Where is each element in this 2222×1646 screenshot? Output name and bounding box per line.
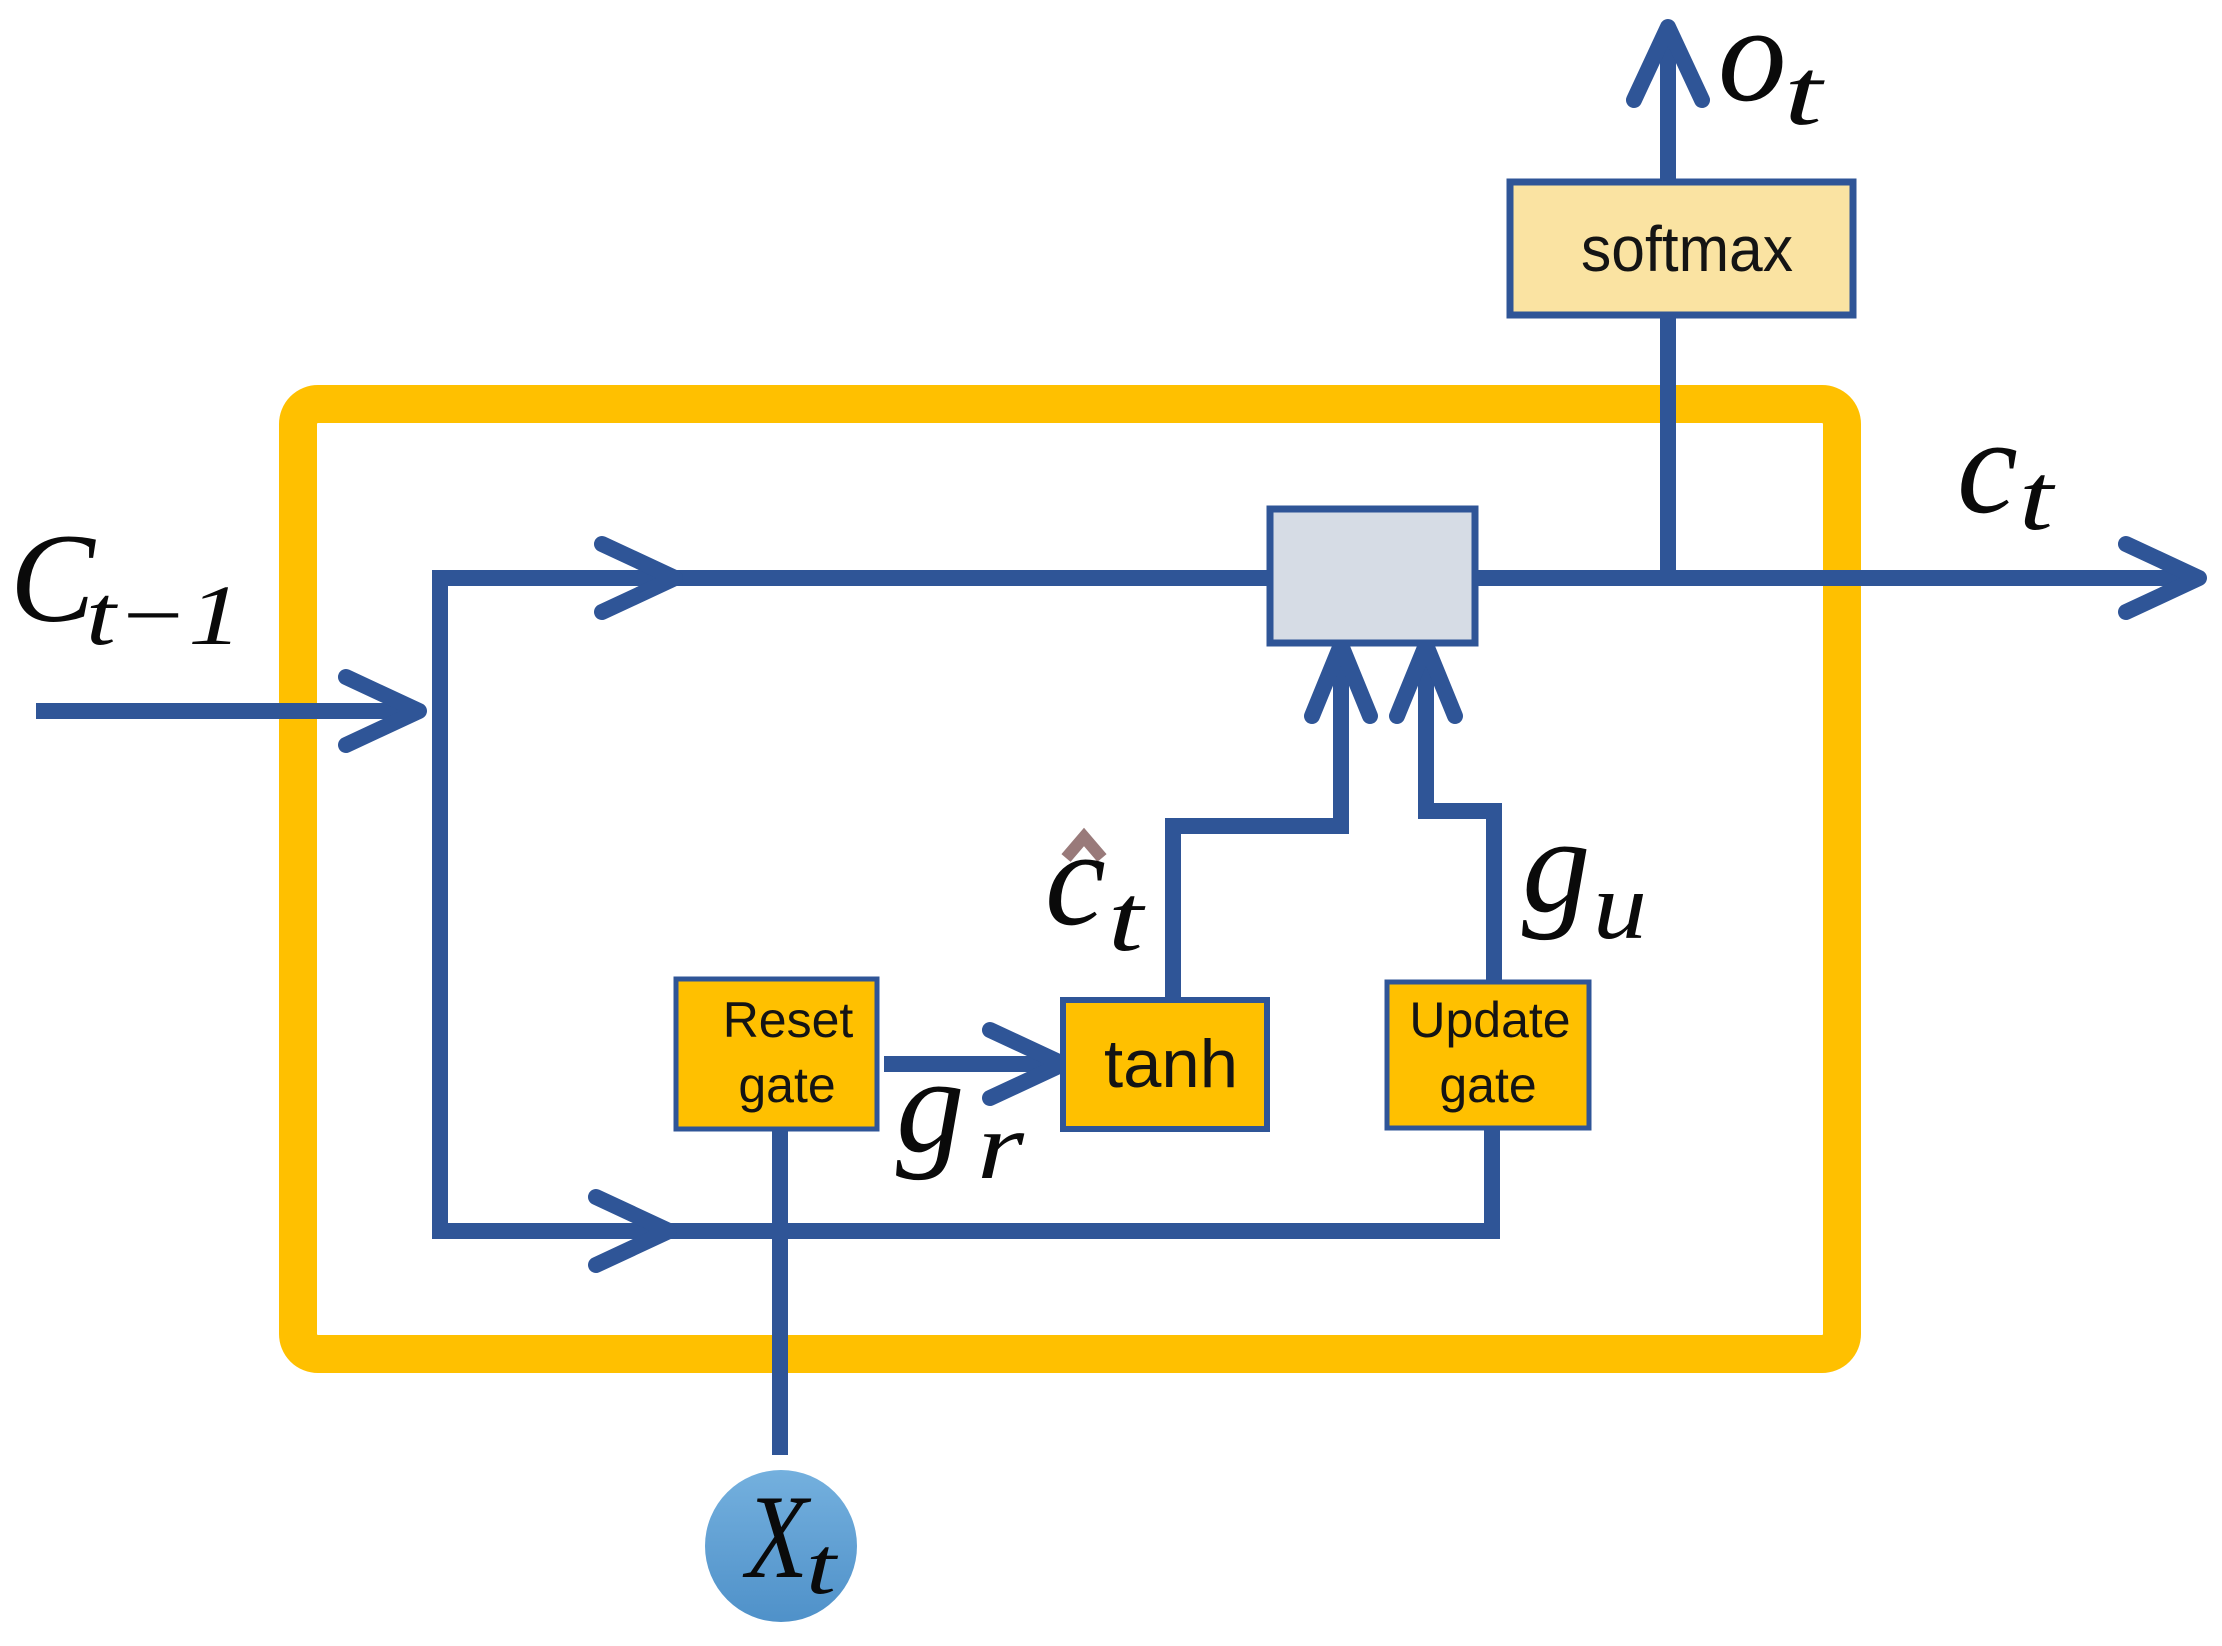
svg-text:g: g <box>896 1029 965 1181</box>
svg-text:t: t <box>2019 444 2056 550</box>
svg-text:gate: gate <box>1439 1057 1536 1113</box>
svg-text:r: r <box>977 1093 1025 1199</box>
box: Reset gate <box>676 979 877 1129</box>
box: Update gate <box>1387 982 1589 1128</box>
wire: combine box to softmax vertical <box>1660 316 1676 578</box>
wire: reset gate to tanh arrow (g_r) <box>884 1056 1058 1072</box>
node: combine box (gray) <box>1270 509 1475 643</box>
svg-text:t: t <box>806 1520 839 1611</box>
svg-text:c: c <box>1957 390 2018 542</box>
svg-text:Reset: Reset <box>723 992 854 1048</box>
svg-text:softmax: softmax <box>1581 213 1793 285</box>
svg-text:o: o <box>1718 0 1787 130</box>
wire: bottom bus arrowhead <box>596 1197 669 1265</box>
wire: left vertical bus + bottom input bus + update-gate riser <box>440 578 1492 1231</box>
svg-text:t: t <box>1108 865 1146 971</box>
svg-text:c: c <box>1045 802 1106 954</box>
svg-text:C: C <box>10 509 96 649</box>
wire: softmax to o_t output arrow <box>1660 32 1676 185</box>
svg-text:g: g <box>1522 789 1591 941</box>
label c-hat_t <box>1066 837 1102 858</box>
svg-text:X: X <box>743 1470 812 1603</box>
wire: top cell-state line <box>432 570 2196 586</box>
wire: C_{t-1} input arrow <box>36 703 414 719</box>
svg-text:Update: Update <box>1409 992 1570 1048</box>
wire: tanh to combine box (c-hat path) <box>1173 650 1341 1002</box>
svg-text:tanh: tanh <box>1104 1026 1238 1102</box>
svg-text:t−1: t−1 <box>86 567 242 663</box>
svg-text:u: u <box>1593 853 1647 959</box>
wire: reset gate to X_t vertical <box>772 1128 788 1455</box>
node: X_t input circle <box>705 1470 857 1622</box>
wire: top line mid arrowhead <box>602 544 675 612</box>
wire: c_t output arrowhead <box>2126 544 2199 612</box>
svg-text:t: t <box>1784 39 1826 145</box>
svg-text:gate: gate <box>738 1057 835 1113</box>
frame: GRU cell outer orange border <box>298 404 1842 1354</box>
wire: update gate to combine box (g_u path) <box>1426 650 1494 988</box>
box: softmax <box>1510 182 1853 315</box>
box: tanh <box>1063 1000 1267 1129</box>
